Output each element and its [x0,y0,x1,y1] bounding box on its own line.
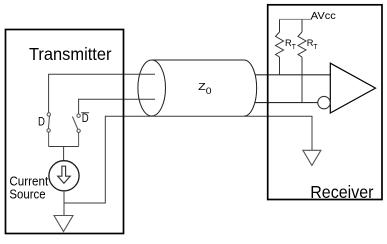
svg-text:Receiver: Receiver [310,182,373,202]
wire switch bus [49,146,79,148]
switch D-bar (open) [72,114,80,147]
wire current source to ground [63,191,65,216]
wire ground return (current source node to receiver ground) [64,116,312,203]
wire bus to current source [63,147,65,161]
wire lower signal (right switch to cylinder) [79,99,155,114]
svg-text:D: D [38,117,45,129]
inverting input bubble [318,96,330,108]
svg-text:AVcc: AVcc [311,11,336,22]
svg-text:0: 0 [206,86,212,96]
svg-text:Transmitter: Transmitter [29,44,112,64]
current source I1 [49,161,79,191]
wire upper signal (left switch to cylinder) [49,74,155,112]
resistor RT (left) [276,19,284,74]
transmission line cylinder Z0 [138,60,257,116]
svg-text:T: T [292,44,297,51]
svg-text:D: D [82,113,89,125]
resistor RT (right) [298,19,306,102]
wire top signal (cylinder to op-amp input) [255,74,330,76]
ground (transmitter) [54,216,73,232]
wire bottom signal (cylinder to inverting bubble) [255,102,318,104]
ground (receiver) [303,150,321,165]
op-amp / comparator U1 [330,63,375,113]
transmitter box [6,30,124,234]
svg-text:Source: Source [9,186,45,201]
svg-text:T: T [313,44,318,51]
receiver box [268,5,382,200]
switch D (closed) [47,113,51,147]
AVcc rail [280,18,313,20]
